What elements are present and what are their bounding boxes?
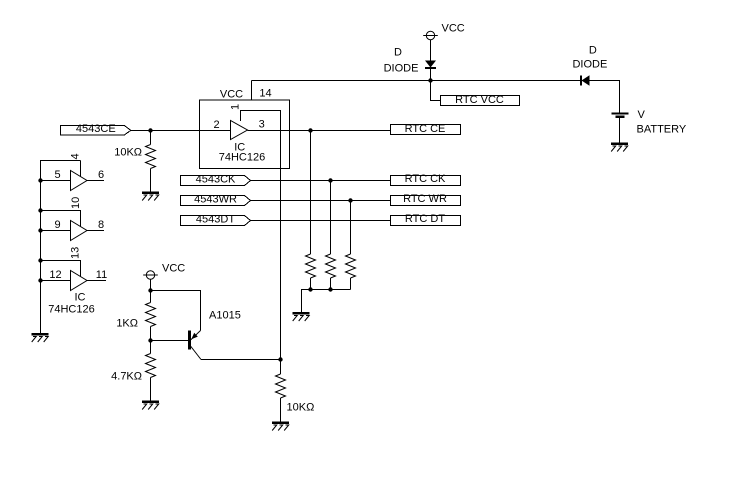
- wire: gate A enable pin1 down to transistor node: [241, 111, 281, 360]
- resistor R6 4.7K: [146, 354, 156, 378]
- wire: CE line down to resistor R2: [310, 131, 312, 255]
- svg-text:V: V: [638, 109, 646, 121]
- wire: emitter feed: [151, 291, 201, 331]
- svg-text:12: 12: [49, 269, 61, 281]
- connector RTC CE: [391, 125, 461, 135]
- svg-text:8: 8: [98, 219, 104, 231]
- wire: R3 to ground bus: [330, 278, 332, 290]
- wire: input to gate C pin 9: [41, 230, 71, 232]
- svg-text:IC: IC: [75, 292, 86, 304]
- svg-text:RTC CK: RTC CK: [405, 173, 446, 185]
- ground: R7: [272, 423, 289, 431]
- resistor R4 pull-down: [346, 254, 356, 278]
- wire: VCC to emitter node: [150, 279, 152, 290]
- VCC symbol top: [423, 31, 438, 39]
- svg-text:4543DT: 4543DT: [196, 214, 235, 226]
- diode D1: [425, 61, 436, 69]
- svg-text:1: 1: [230, 104, 242, 110]
- wire: pin 14 to VCC rail: [251, 81, 253, 100]
- ground: pull-down bus: [293, 313, 310, 321]
- wire: VCC to diode D1: [430, 40, 432, 61]
- svg-text:4543CK: 4543CK: [196, 174, 236, 186]
- node: R3 bus junction: [328, 287, 332, 291]
- svg-text:VCC: VCC: [442, 23, 465, 35]
- svg-text:RTC VCC: RTC VCC: [455, 94, 504, 106]
- connector 4543CE: [61, 126, 131, 136]
- resistor R7 10K: [276, 374, 286, 398]
- svg-text:3: 3: [259, 119, 265, 131]
- buffer gate B (74HC126): [71, 171, 88, 191]
- wire: base node to R6: [150, 341, 152, 354]
- wire: 4543WR to RTC WR: [251, 200, 391, 202]
- transistor Q1 A1015: [190, 331, 202, 360]
- node: collector junction: [278, 357, 282, 361]
- svg-text:VCC: VCC: [162, 263, 185, 275]
- wire: gate A output pin3 to RTC CE: [248, 130, 391, 132]
- svg-text:DIODE: DIODE: [572, 59, 607, 71]
- ground: left bus: [32, 334, 49, 342]
- svg-text:2: 2: [213, 119, 219, 131]
- node: VCC rail junction: [428, 78, 432, 82]
- resistor R2 pull-down: [306, 254, 316, 278]
- wire: VCC node to R5: [150, 291, 152, 303]
- buffer gate C (74HC126): [71, 221, 88, 241]
- node: bus-input B junction: [38, 178, 42, 182]
- wire: base wire to Q1: [151, 340, 189, 342]
- battery V: [612, 114, 629, 117]
- svg-text:DIODE: DIODE: [384, 63, 419, 75]
- wire: CK line down to resistor R3: [330, 181, 332, 255]
- wire: R5 to base node: [150, 327, 152, 341]
- node: bus-enable C junction: [38, 208, 42, 212]
- svg-text:9: 9: [54, 219, 60, 231]
- svg-text:RTC WR: RTC WR: [403, 193, 447, 205]
- connector 4543CK: [181, 176, 251, 186]
- wire: enable branch to gate D: [41, 261, 81, 277]
- svg-text:14: 14: [259, 88, 271, 100]
- wire: VCC rail from pin14 to battery corner: [252, 81, 620, 114]
- wire: collector to pin1 node: [201, 359, 281, 361]
- connector RTC CK: [391, 176, 461, 186]
- wire: enable branch to gate C: [41, 211, 81, 227]
- resistor R3 pull-down: [326, 254, 336, 278]
- svg-text:4: 4: [70, 153, 82, 159]
- node: bus-enable D junction: [38, 258, 42, 262]
- wire: enable vertical into gate B: [80, 161, 82, 177]
- wire: rail down to RTC VCC: [431, 81, 441, 101]
- svg-text:10KΩ: 10KΩ: [114, 147, 142, 159]
- wire: D1 to VCC rail junction: [430, 69, 432, 81]
- connector RTC VCC: [441, 96, 520, 106]
- wire: R7 to ground: [280, 398, 282, 422]
- svg-text:10: 10: [70, 197, 82, 209]
- ground: battery: [611, 144, 628, 152]
- svg-text:4543CE: 4543CE: [76, 123, 116, 135]
- ground: R1: [142, 193, 159, 201]
- VCC symbol transistor: [143, 271, 158, 279]
- wire: input to gate B pin 5: [41, 180, 71, 182]
- svg-text:1KΩ: 1KΩ: [116, 318, 138, 330]
- svg-text:D: D: [394, 47, 402, 59]
- svg-text:6: 6: [98, 169, 104, 181]
- wire: 4543CE to gate A pin 2: [131, 130, 231, 132]
- wire: gate C output pin 8: [87, 230, 104, 232]
- svg-text:74HC126: 74HC126: [48, 304, 94, 316]
- svg-text:74HC126: 74HC126: [219, 152, 265, 164]
- wire: pull-down ground bus: [302, 290, 351, 313]
- node: base junction: [148, 338, 152, 342]
- IC box 74HC126 gate A: [200, 100, 290, 169]
- buffer gate D (74HC126): [71, 271, 88, 291]
- wire: R2 to ground bus: [310, 278, 312, 290]
- wire: gate D output pin 11: [87, 280, 106, 282]
- svg-text:RTC CE: RTC CE: [405, 123, 446, 135]
- wire: R4 to ground bus: [350, 278, 352, 290]
- wire: R1 to ground: [150, 169, 152, 192]
- buffer gate A (74HC126): [231, 121, 248, 140]
- wire: node to resistor R7: [280, 360, 282, 375]
- svg-text:A1015: A1015: [209, 310, 241, 322]
- wire: down to resistor R1: [150, 131, 152, 145]
- svg-text:BATTERY: BATTERY: [637, 124, 687, 136]
- connector 4543WR: [181, 196, 251, 206]
- svg-text:5: 5: [54, 169, 60, 181]
- node: WR pull-down junction: [348, 198, 352, 202]
- svg-text:RTC DT: RTC DT: [405, 213, 445, 225]
- wire: 4543DT to RTC DT: [251, 220, 391, 222]
- svg-text:D: D: [589, 45, 597, 57]
- svg-text:VCC: VCC: [220, 89, 243, 101]
- svg-text:13: 13: [70, 247, 82, 259]
- wire: WR line down to resistor R4: [350, 201, 352, 255]
- node: bus-input D junction: [38, 278, 42, 282]
- node: VCC/1K/emitter junction: [148, 288, 152, 292]
- node: R2 bus junction: [308, 287, 312, 291]
- wire: left input bus x=40 with enable branch to gate B: [41, 161, 81, 334]
- resistor R1 10K: [146, 145, 156, 169]
- wire: battery to ground: [619, 118, 621, 143]
- diode D2: [581, 75, 590, 85]
- svg-text:4543WR: 4543WR: [194, 194, 237, 206]
- wire: gate B output pin 6: [87, 180, 104, 182]
- node: bus-input C junction: [38, 228, 42, 232]
- svg-text:4.7KΩ: 4.7KΩ: [111, 371, 142, 383]
- node: CE / pull-down junction: [148, 128, 152, 132]
- wire: 4543CK to RTC CK: [251, 180, 391, 182]
- connector RTC WR: [391, 196, 461, 206]
- wire: R6 to ground: [150, 378, 152, 401]
- connector RTC DT: [391, 216, 461, 226]
- svg-text:11: 11: [96, 269, 107, 281]
- ground: R6: [142, 402, 159, 410]
- node: CK pull-down junction: [328, 178, 332, 182]
- connector 4543DT: [181, 216, 251, 226]
- svg-text:10KΩ: 10KΩ: [287, 402, 315, 414]
- wire: input to gate D pin 12: [41, 280, 71, 282]
- resistor R5 1K: [146, 303, 156, 327]
- node: CE output branch: [308, 128, 312, 132]
